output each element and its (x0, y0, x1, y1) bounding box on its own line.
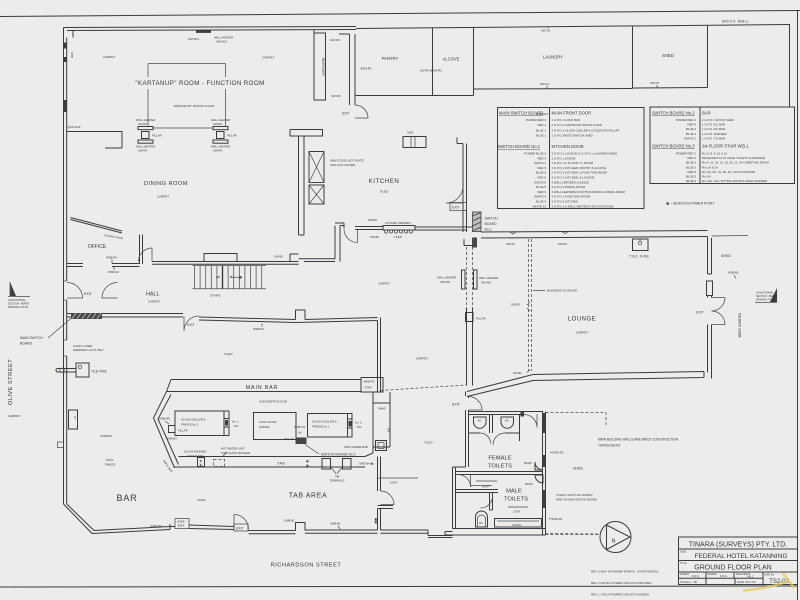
kitchen servery bench (383, 226, 415, 234)
svg-text:▣: ▣ (306, 459, 309, 463)
svg-text:SW-R4: SW-R4 (558, 242, 567, 246)
female toilets top wall (469, 412, 544, 415)
TV box on left wall (69, 410, 78, 429)
right counter till box (376, 441, 387, 451)
svg-text:EXIT: EXIT (187, 323, 195, 327)
svg-text:4 G.P.O.'s KITCHEN: 4 G.P.O.'s KITCHEN (552, 200, 578, 204)
svg-text:A/L: A/L (298, 431, 302, 435)
lounge right wall upper (708, 237, 712, 275)
svg-text:K.R.H: K.R.H (692, 574, 699, 578)
svg-text:SW-93: SW-93 (506, 242, 515, 246)
svg-text:3 WALL HEATERS LOUNGE: 3 WALL HEATERS LOUNGE (552, 180, 589, 184)
wall notch sw-r4 (562, 232, 568, 234)
laundry bottom wall (474, 88, 633, 91)
tab-lounge wall (378, 318, 381, 393)
svg-text:FEMALE: FEMALE (488, 456, 511, 462)
svg-text:TILL: TILL (234, 424, 240, 428)
left wall outer (63, 34, 65, 504)
bottom wall bar section (92, 527, 170, 534)
svg-text:LIGHT: LIGHT (390, 481, 398, 485)
yellow highlighter mark (744, 574, 794, 591)
svg-text:TINARA (SURVEYS) PTY. LTD.: TINARA (SURVEYS) PTY. LTD. (689, 542, 787, 549)
svg-text:BLUE 1: BLUE 1 (536, 134, 546, 138)
basin male (535, 475, 543, 483)
lounge left wall solid (467, 308, 473, 386)
svg-text:RED 4: RED 4 (537, 156, 546, 160)
divider wall female/male (456, 472, 544, 475)
svg-text:1 G.P.O. A/C BAR: 1 G.P.O. A/C BAR (702, 123, 725, 127)
svg-text:BAR: BAR (702, 111, 711, 116)
svg-text:GROUND FLOOR PLAN: GROUND FLOOR PLAN (694, 565, 771, 572)
hall entrance door leaf B (102, 283, 118, 299)
svg-text:KITCHEN SERVERY: KITCHEN SERVERY (385, 221, 411, 225)
svg-text:SW-R9: SW-R9 (138, 148, 147, 152)
svg-text:EXIT: EXIT (342, 112, 350, 116)
svg-text:SW-R9: SW-R9 (138, 122, 147, 126)
svg-text:TOILETS: TOILETS (488, 464, 512, 470)
right wall segment to doors (708, 296, 712, 298)
pantry/alcove bottom wall (355, 95, 474, 97)
svg-text:CARPET: CARPET (157, 195, 169, 199)
svg-text:HOT WATER UNIT: HOT WATER UNIT (221, 447, 245, 451)
light label lobby (378, 477, 418, 479)
kitchen door arc (344, 229, 358, 243)
lounge left wall dashed upper (467, 247, 473, 308)
parquetry outline top (148, 63, 226, 65)
svg-text:PANTRY: PANTRY (382, 56, 399, 61)
svg-text:GLASS WASHER: GLASS WASHER (184, 450, 206, 454)
left wall heater bar (64, 100, 67, 112)
svg-text:REV 1 (TELIA POWER CIRCUITS: REV 1 (TELIA POWER CIRCUITS ADDED) (591, 593, 649, 597)
wall bump (296, 523, 306, 531)
svg-text:SINK: SINK (407, 131, 414, 135)
svg-text:POOL: POOL (106, 458, 114, 462)
male left wall (453, 467, 466, 529)
svg-text:1 G.P.O. A/C BAR: 1 G.P.O. A/C BAR (702, 127, 725, 131)
top wall double (64, 27, 357, 31)
left wall door jamb marks (64, 281, 67, 356)
svg-text:▣ – DENOTES POWER POINT: ▣ – DENOTES POWER POINT (666, 202, 714, 206)
hall exit door to bar (184, 316, 199, 331)
svg-text:STAIRS: STAIRS (210, 294, 221, 298)
svg-text:WC: WC (479, 522, 483, 525)
basin female (535, 462, 543, 470)
EXIT label box bottom (234, 524, 248, 531)
svg-text:1 G.P.O. T.P. BAR: 1 G.P.O. T.P. BAR (702, 136, 725, 140)
tile fire lounge box (629, 239, 650, 259)
svg-text:1 G.P.O. REITE SWITCH SHED: 1 G.P.O. REITE SWITCH SHED (552, 134, 593, 138)
bulkhead dashed lines (529, 239, 532, 371)
svg-text:WSB-B4: WSB-B4 (166, 437, 177, 441)
svg-text:SW-B8: SW-B8 (368, 218, 377, 222)
longitudinal section marker left (8, 282, 30, 309)
svg-text:FOR GLASS WASHER: FOR GLASS WASHER (221, 451, 250, 455)
lounge top wall band (481, 231, 708, 239)
svg-text:⊢SWD-R1: ⊢SWD-R1 (549, 517, 563, 521)
svg-text:ALCOVE: ALCOVE (443, 57, 460, 62)
svg-text:TILED: TILED (197, 498, 206, 502)
svg-text:SINK UNDER BAR: SINK UNDER BAR (344, 445, 368, 449)
shed thin line right (712, 235, 749, 238)
bottom-left diagonal wall (64, 504, 95, 534)
divider laundry/shed (632, 26, 634, 89)
svg-text:CONCRETE FLOOR: CONCRETE FLOOR (259, 400, 288, 404)
svg-text:1 G.P.O. LOUNGE: 1 G.P.O. LOUNGE (552, 156, 576, 160)
svg-text:▣▣: ▣▣ (374, 518, 378, 524)
svg-text:SW-G3: SW-G3 (540, 82, 550, 86)
hall top wall left segment (67, 264, 83, 267)
beer garden door leaf lower (712, 311, 726, 325)
svg-text:BOX: BOX (178, 524, 184, 528)
svg-text:RED 2: RED 2 (537, 123, 546, 127)
step lines left of hatch (464, 239, 472, 246)
right wall lower segment (708, 325, 712, 379)
svg-text:TAB: TAB (335, 475, 340, 479)
scan bottom border (0, 586, 798, 587)
shed bottom wall (633, 87, 708, 90)
stairs (193, 266, 267, 298)
scan right border (797, 11, 799, 600)
svg-text:4 WALL HEATERS FUNCTION ROOM &: 4 WALL HEATERS FUNCTION ROOM & DINING RO… (552, 190, 626, 194)
svg-text:A.B.C: A.B.C (747, 574, 754, 578)
label EXIT kitchen (450, 203, 467, 211)
bar ring left outer diagonal (154, 392, 179, 469)
svg-text:POWER BLUE 3: POWER BLUE 3 (524, 152, 546, 156)
svg-text:PARQUETRY DANCE FLOOR: PARQUETRY DANCE FLOOR (174, 104, 216, 108)
hall entrance door leaf A (67, 283, 83, 299)
svg-text:SHED: SHED (573, 467, 583, 471)
svg-text:CARPET: CARPET (100, 434, 112, 438)
kitchen right wall door (446, 186, 463, 203)
svg-text:FRIDGE No 2: FRIDGE No 2 (181, 423, 199, 427)
dining wall bump B (290, 254, 299, 262)
svg-text:DRAWN: DRAWN (708, 573, 717, 576)
svg-text:3 G.P.O.'s LOUNGE & 3 G.P.O.'s: 3 G.P.O.'s LOUNGE & 3 G.P.O.'s LAUNDRY/S… (552, 152, 618, 156)
svg-text:EXIT: EXIT (452, 403, 461, 407)
dashed shed boundary top (546, 413, 607, 428)
tab right wall door (381, 491, 395, 505)
svg-text:BASIN: BASIN (525, 482, 533, 486)
svg-text:SW-W5: SW-W5 (331, 94, 341, 98)
svg-text:RAMP: RAMP (378, 407, 386, 411)
step box main bar right (361, 378, 383, 393)
dashed floor line to step (381, 385, 467, 391)
tile fire left wall (76, 363, 108, 377)
svg-text:No.1: No.1 (485, 228, 492, 232)
svg-text:BLUE 6: BLUE 6 (686, 179, 696, 183)
svg-text:POWER RED 2: POWER RED 2 (676, 118, 697, 122)
svg-text:K.R.H: K.R.H (720, 574, 727, 578)
svg-text:SWITCH: SWITCH (485, 217, 499, 221)
svg-text:LAUNDRY: LAUNDRY (543, 55, 563, 60)
svg-text:REV 2 HOTEL POWER CIRCUITS R: REV 2 HOTEL POWER CIRCUITS REVISED (591, 581, 652, 585)
svg-text:TOILETS: TOILETS (504, 497, 528, 503)
top wall heater bar (196, 30, 211, 33)
bottom wall step at juke box (170, 524, 175, 530)
stove unit (309, 152, 324, 205)
svg-text:WSB-R2: WSB-R2 (108, 270, 119, 274)
svg-text:WHITE 8: WHITE 8 (534, 180, 546, 184)
pillar assembly left (136, 118, 162, 152)
svg-text:BLUE 3: BLUE 3 (686, 127, 696, 131)
svg-text:No. 1: No. 1 (232, 420, 239, 424)
svg-text:SW-B9: SW-B9 (274, 255, 283, 259)
kitchen bottom wall mid (355, 227, 383, 230)
svg-text:WALL HEATER: WALL HEATER (479, 276, 498, 280)
svg-text:SWB-B1: SWB-B1 (284, 519, 295, 523)
ramp lines (373, 392, 390, 403)
svg-text:RED 8: RED 8 (537, 176, 546, 180)
svg-text:PILLAR: PILLAR (152, 134, 162, 138)
svg-text:3 G.P.O.'s DINING ROOM: 3 G.P.O.'s DINING ROOM (552, 185, 586, 189)
hall bottom wall with switchboard hatch (67, 314, 183, 318)
svg-text:KITCHEN: KITCHEN (369, 178, 400, 185)
svg-text:GLASS CHILLER &: GLASS CHILLER & (312, 420, 337, 424)
svg-text:TABLES: TABLES (105, 463, 116, 467)
svg-text:Rm 3, 8, 9, 10 & 12: Rm 3, 8, 9, 10 & 12 (702, 152, 727, 156)
tab terminal boxes (322, 459, 351, 483)
switch board no1 hatch (473, 212, 482, 232)
svg-text:2 G.P.O.'s KITCHEN, & FUNCTION: 2 G.P.O.'s KITCHEN, & FUNCTION ROOM (552, 171, 608, 175)
svg-text:BLUE 5: BLUE 5 (686, 175, 696, 179)
pantry wall exit door (355, 105, 368, 118)
bottom wall to bump (249, 531, 296, 534)
glass chiller fridge no2 (175, 411, 229, 436)
divider shed right (707, 26, 709, 88)
female cubicle walls (469, 415, 520, 442)
svg-text:DRAWING TS2-06: DRAWING TS2-06 (756, 298, 777, 301)
kitchen door stub (335, 223, 344, 229)
svg-text:BLUE 5: BLUE 5 (686, 165, 696, 169)
svg-text:SUBJ: SUBJ (680, 551, 687, 554)
flag through wall (56, 369, 76, 373)
pillar box bar (169, 426, 176, 433)
svg-text:4 G.P.O.'s KITCHEN, PANTRY & A: 4 G.P.O.'s KITCHEN, PANTRY & ALCOVE (552, 166, 607, 170)
divider pantry/alcove (432, 28, 434, 96)
svg-text:BLUE 4: BLUE 4 (686, 132, 696, 136)
bottom wall to tab right wall (305, 530, 378, 533)
svg-text:PILLAR: PILLAR (227, 134, 237, 138)
svg-text:2 G.P.O.'s & WALL HEATER FUNCT: 2 G.P.O.'s & WALL HEATER FUNCTION ROOM (552, 204, 614, 208)
svg-text:BEER GARDEN: BEER GARDEN (738, 312, 742, 337)
kitchen left wall stem (299, 136, 305, 235)
toilets right wall (543, 412, 546, 536)
svg-text:BRICK WALL: BRICK WALL (722, 20, 750, 24)
dining wall bump (204, 254, 237, 262)
pillar assembly right (211, 118, 237, 152)
svg-text:SWITCH BOARD No.2: SWITCH BOARD No.2 (652, 111, 695, 116)
svg-text:⊢SWD-R2: ⊢SWD-R2 (550, 451, 564, 455)
hall top wall mid segment (112, 264, 140, 267)
svg-text:WC: WC (505, 420, 509, 423)
svg-text:SWITCH BOARD No.1: SWITCH BOARD No.1 (498, 144, 541, 149)
svg-text:LOUNGE: LOUNGE (568, 317, 596, 323)
svg-text:MAIN SWITCH: MAIN SWITCH (20, 336, 43, 340)
svg-text:1 G.P.O. SNR BAR: 1 G.P.O. SNR BAR (702, 132, 727, 136)
svg-text:DATE JULY 89: DATE JULY 89 (737, 580, 756, 584)
pillar box lounge wall (466, 313, 474, 322)
male cubicle door arc (481, 496, 493, 508)
svg-text:BLUE 5: BLUE 5 (536, 171, 546, 175)
svg-text:WSB-B9: WSB-B9 (159, 417, 170, 421)
svg-text:DOOR CLOSED: DOOR CLOSED (73, 344, 92, 348)
svg-text:SWITCH BOARD No.3: SWITCH BOARD No.3 (652, 144, 695, 149)
longitudinal section marker right (755, 288, 777, 303)
svg-text:URINAL: URINAL (512, 523, 522, 527)
svg-text:BOARD: BOARD (20, 342, 33, 346)
svg-text:BLUE 5: BLUE 5 (686, 161, 696, 165)
wall notch sw-93 (510, 232, 516, 234)
svg-text:MANAGERS FLAT, MALE TOILETS &: MANAGERS FLAT, MALE TOILETS & PASSAGE (702, 156, 765, 160)
female cubicle door arcs (480, 433, 505, 445)
svg-text:SWB-R2: SWB-R2 (364, 380, 375, 384)
svg-text:WSB-R3: WSB-R3 (106, 256, 117, 260)
svg-text:BASIN: BASIN (524, 461, 532, 465)
svg-text:TILED: TILED (394, 235, 402, 239)
office right wall (140, 235, 143, 265)
dashed shed boundary bottom (546, 534, 601, 536)
svg-text:PILLAR: PILLAR (178, 429, 188, 433)
svg-text:SW-R9: SW-R9 (213, 122, 222, 126)
exit door arc lobby (469, 397, 483, 411)
svg-text:SW-G5: SW-G5 (650, 81, 660, 85)
svg-text:LIGHT: LIGHT (482, 485, 490, 489)
svg-text:WHITE 2: WHITE 2 (684, 136, 696, 140)
kitchen left wall T-cap (290, 130, 323, 137)
divider door arc (458, 475, 471, 488)
line connecting pillars (153, 127, 213, 129)
svg-text:BAR: BAR (117, 493, 138, 503)
svg-text:WHITE 4: WHITE 4 (534, 161, 546, 165)
svg-text:CARPET: CARPET (103, 55, 115, 59)
svg-text:SCALE 1 : 50: SCALE 1 : 50 (680, 580, 697, 584)
pantry left wall double (339, 34, 355, 105)
svg-text:SWITCH BOARD No 2: SWITCH BOARD No 2 (321, 453, 356, 457)
svg-text:1 G.P.O. 1st FLOOR T.V. ROOM: 1 G.P.O. 1st FLOOR T.V. ROOM (552, 161, 594, 165)
svg-text:WSB-W1: WSB-W1 (294, 425, 306, 429)
svg-text:3 G.P.O.'s GLASS CHILLER & COO: 3 G.P.O.'s GLASS CHILLER & COOLROOM PILL… (552, 128, 620, 132)
svg-text:CARPET: CARPET (262, 56, 274, 60)
svg-text:WC: WC (478, 420, 482, 423)
svg-text:SW-W13: SW-W13 (188, 37, 200, 41)
svg-text:RICHARDSON STREET: RICHARDSON STREET (271, 563, 342, 569)
dining bottom wall (152, 262, 299, 265)
glass chiller fridge no1 (308, 414, 353, 438)
svg-text:SHED: SHED (662, 53, 674, 58)
svg-text:❴SW-W12: ❴SW-W12 (67, 125, 81, 129)
female entry door (524, 414, 537, 428)
svg-text:HALL: HALL (146, 292, 160, 298)
top wall of rooms row (356, 25, 790, 29)
exit door bottom (arc) (234, 515, 249, 530)
small hatch below no1 (472, 238, 477, 248)
svg-text:3 G.P.O.'s KITCHEN, & LOUNGE: 3 G.P.O.'s KITCHEN, & LOUNGE (552, 176, 595, 180)
svg-text:❴SW-R5: ❴SW-R5 (360, 67, 372, 71)
svg-text:TILE FIRE: TILE FIRE (91, 370, 108, 374)
svg-text:CARPET: CARPET (148, 300, 160, 304)
svg-text:BLUE 8: BLUE 8 (536, 185, 546, 189)
counter boxes with power (198, 458, 205, 467)
beer garden door leaf upper (712, 298, 726, 312)
svg-text:SW-W8: SW-W8 (481, 281, 491, 285)
svg-text:TV: TV (73, 416, 77, 420)
svg-text:1 G.P.O. CLOCK BAR: 1 G.P.O. CLOCK BAR (552, 118, 580, 122)
main switch board hatch (71, 313, 102, 319)
svg-text:WSB-B1: WSB-B1 (728, 271, 739, 275)
svg-text:TILE FIRE: TILE FIRE (629, 255, 650, 259)
svg-text:AND GAS COOLER: AND GAS COOLER (330, 163, 355, 167)
svg-text:TAB AREA: TAB AREA (289, 493, 328, 500)
svg-text:B.B: B.B (387, 428, 391, 432)
svg-text:3 G.P.O.'s FUNCTION ROOM: 3 G.P.O.'s FUNCTION ROOM (552, 195, 591, 199)
svg-text:MAIN FRONT DOOR: MAIN FRONT DOOR (552, 111, 592, 116)
svg-text:BLUE 9: BLUE 9 (536, 200, 546, 204)
svg-text:GLASS CHILLER &: GLASS CHILLER & (181, 418, 206, 422)
right wall pillar box (707, 281, 713, 296)
svg-text:SW-R5 ⊞ SW-R5: SW-R5 ⊞ SW-R5 (420, 69, 442, 73)
right bar counter band (365, 403, 390, 457)
male lobby wall (456, 490, 499, 493)
wall heater left (462, 270, 466, 289)
male shelf line (471, 485, 492, 487)
svg-text:EMERGENCY EXIT ONLY: EMERGENCY EXIT ONLY (73, 348, 104, 352)
juke box (175, 519, 189, 529)
svg-text:ARE ON MAIN SWITCH BOARD: ARE ON MAIN SWITCH BOARD (556, 498, 597, 502)
svg-text:LIGHT: LIGHT (513, 510, 521, 514)
svg-text:BULKHEAD IN CEILING: BULKHEAD IN CEILING (547, 289, 578, 293)
kitchen bottom wall right (415, 227, 473, 230)
svg-text:COOL ROOM: COOL ROOM (259, 420, 277, 424)
svg-text:SW-W13: SW-W13 (216, 40, 228, 44)
office door arc (139, 248, 153, 262)
wall notch top-left office recess (67, 132, 122, 149)
svg-text:Rm 4A, 5A, 7A, 8A, 9A, 10A & P: Rm 4A, 5A, 7A, 8A, 9A, 10A & PASSAGE (702, 170, 755, 174)
left wall inner (66, 38, 68, 505)
svg-text:DINING ROOM: DINING ROOM (144, 181, 188, 187)
svg-text:SW-B8: SW-B8 (370, 235, 379, 239)
female toilets left wall (466, 410, 469, 467)
svg-text:MALE: MALE (506, 489, 522, 495)
svg-text:CARPET: CARPET (378, 282, 390, 286)
bar top wall (199, 317, 296, 323)
bottom wall lobby (381, 530, 429, 536)
male cubicle wall (490, 493, 493, 511)
wall hatch top-left (64, 43, 68, 49)
svg-text:SWB-B1: SWB-B1 (330, 522, 341, 526)
svg-text:SWD-B4 ▣: SWD-B4 ▣ (359, 462, 374, 466)
scan top border (0, 11, 800, 17)
svg-text:MAIN BAR: MAIN BAR (246, 385, 278, 391)
svg-text:FRIDGE No 1: FRIDGE No 1 (312, 424, 330, 428)
svg-text:TITLE: TITLE (680, 562, 687, 565)
svg-text:CARPET: CARPET (576, 331, 588, 335)
svg-text:WHITE 13: WHITE 13 (533, 204, 547, 208)
svg-text:TILED: TILED (380, 190, 389, 194)
passage wall right of dining (299, 226, 341, 262)
svg-text:DWG No: DWG No (765, 574, 775, 577)
svg-text:▣: ▣ (306, 464, 309, 468)
svg-text:SW-W8: SW-W8 (440, 280, 450, 284)
svg-text:TILED: TILED (424, 441, 433, 445)
left wall window notch (58, 442, 64, 448)
parquetry outline right (225, 64, 227, 127)
svg-text:REV 3 WAY IN POWER POINTS -: REV 3 WAY IN POWER POINTS - EXTRA DETAIL (591, 570, 659, 574)
divider alcove/laundry (473, 28, 475, 96)
toilets bottom wall (445, 529, 546, 536)
svg-text:STEP: STEP (365, 386, 372, 390)
right boundary vertical (789, 25, 791, 108)
svg-text:MAIN SWITCH BOARD: MAIN SWITCH BOARD (499, 111, 543, 116)
